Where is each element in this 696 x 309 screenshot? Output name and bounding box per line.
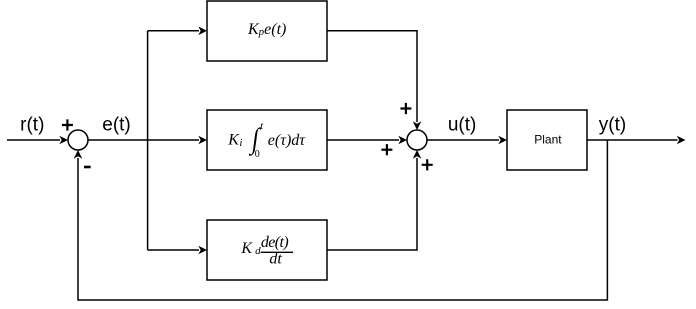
svg-text:dt: dt [269, 251, 282, 268]
svg-text:e(t): e(t) [102, 115, 131, 136]
svg-text:r(t): r(t) [20, 115, 44, 136]
svg-text:de(t): de(t) [261, 234, 288, 251]
svg-text:0: 0 [255, 149, 260, 160]
svg-text:u(t): u(t) [448, 115, 477, 136]
svg-text:t: t [260, 121, 263, 132]
svg-text:e(τ)dτ: e(τ)dτ [268, 132, 306, 149]
svg-text:Plant: Plant [534, 133, 562, 147]
svg-text:y(t): y(t) [599, 115, 626, 136]
svg-text:Kpe(t): Kpe(t) [247, 21, 286, 38]
